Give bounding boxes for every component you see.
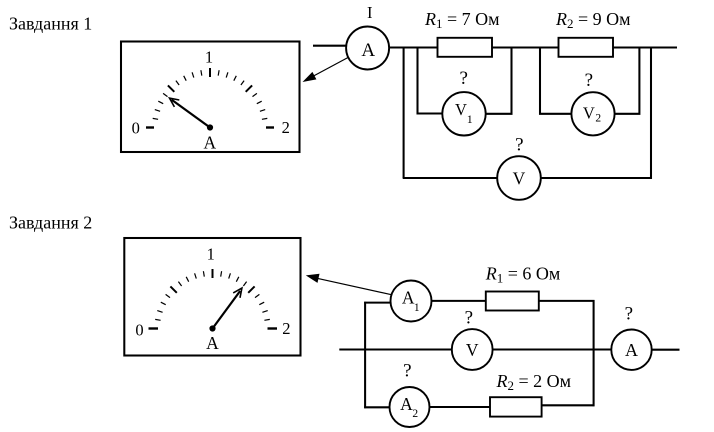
svg-text:V: V [455,100,467,119]
svg-text:1: 1 [205,48,213,67]
svg-text:?: ? [515,135,523,156]
wire: task 2 middle left [339,348,452,350]
svg-text:R2 = 9 Ом: R2 = 9 Ом [555,9,631,31]
svg-text:V: V [583,104,595,123]
svg-text:A: A [625,340,638,360]
svg-text:?: ? [465,308,473,329]
svg-text:Завдання 2: Завдання 2 [9,213,92,233]
resistor R1 (6 Ом) [486,292,539,311]
wire: bottom loop left vertical [403,47,405,179]
wire: R1 to R2 [492,46,559,48]
meter box 1 [121,42,300,153]
voltmeter V2 [571,92,614,135]
wire: R1 to right vertical [539,300,595,302]
wire: A1 to R1 [432,300,486,302]
svg-text:R1 = 7 Ом: R1 = 7 Ом [424,9,500,31]
svg-text:I: I [367,3,373,22]
wire: V1 loop left [418,47,443,114]
wire: V to A [493,348,612,350]
wire: V2 loop left [540,47,571,114]
wire: A2 to R2 [430,406,491,408]
svg-text:?: ? [585,70,593,91]
ammeter A2 [390,387,430,427]
dial 1 pivot dot [207,124,213,130]
svg-text:?: ? [625,304,633,325]
svg-text:A: A [400,394,413,414]
wire: bottom loop bottom-left [403,177,497,179]
resistor R2 (2 Ом) [490,397,542,416]
svg-text:A: A [203,132,216,152]
svg-text:1: 1 [207,245,215,264]
svg-text:2: 2 [282,319,290,338]
ammeter A1 [391,281,432,322]
wire: left stub task 1 [313,45,347,47]
svg-text:A: A [402,288,415,308]
svg-text:A: A [361,40,375,61]
voltmeter V (task 2) [452,329,493,370]
svg-text:Завдання 1: Завдання 1 [9,14,92,34]
wire: A to right end [652,349,680,351]
svg-text:R1 = 6 Ом: R1 = 6 Ом [485,264,561,286]
wire: ammeter to R1 [389,46,438,48]
voltmeter V1 [442,92,485,135]
ammeter A (task 2) [611,330,651,370]
resistor R2 (9 Ом) [559,38,614,57]
wire: bottom loop right vertical [650,47,652,179]
dial 2 needle (reads 1.4) [213,288,242,329]
voltmeter V (task 1) [497,156,541,200]
dial 1 scale ticks [146,68,274,128]
wire: V1 loop right [486,47,512,114]
svg-text:1: 1 [414,302,420,314]
wire: V2 loop right [615,47,640,114]
wire: R2 to right vertical [542,404,595,406]
dial 2 scale ticks [149,269,278,329]
pointer arrow to meter box 2 [306,274,392,295]
wire: left vertical to A1 [364,302,391,304]
resistor R1 (7 Ом) [438,38,493,57]
svg-text:2: 2 [412,408,418,420]
pointer arrow to meter box 1 [303,58,349,83]
ammeter A (task 1) [346,27,389,70]
svg-text:R2 = 2 Ом: R2 = 2 Ом [496,371,572,393]
wire: task 2 left vertical [364,302,366,409]
svg-text:0: 0 [132,118,140,137]
svg-text:1: 1 [467,112,473,126]
svg-text:2: 2 [595,113,601,125]
svg-text:A: A [206,333,219,353]
dial 1 needle (reads 0.4) [170,98,211,127]
svg-text:0: 0 [135,321,143,340]
svg-text:?: ? [459,68,467,89]
dial 2 pivot dot [209,325,215,331]
svg-text:V: V [513,168,526,188]
svg-text:?: ? [403,361,411,382]
wire: task 2 right vertical [593,300,595,406]
svg-text:2: 2 [282,118,290,137]
wire: R2 to right end [613,46,677,48]
wire: left vertical to A2 [364,406,389,408]
svg-text:V: V [466,340,479,360]
wire: bottom loop bottom-right [541,177,652,179]
meter box 2 [124,238,300,356]
